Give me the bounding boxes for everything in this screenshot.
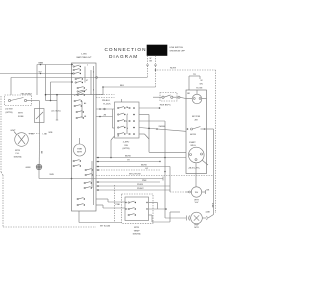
svg-text:2: 2: [93, 72, 94, 74]
svg-text:6: 6: [127, 128, 128, 130]
wire PR-BLK: [96, 95, 115, 102]
svg-text:YL-BLK: YL-BLK: [103, 104, 111, 106]
wire YL-BLK: [96, 98, 115, 106]
svg-text:WTR: WTR: [134, 227, 139, 229]
svg-text:START: START: [189, 141, 196, 144]
wires speed switch right: [139, 107, 186, 218]
wire lid switch to fuse: [27, 100, 58, 109]
svg-text:YEL/W-BLK: YEL/W-BLK: [21, 93, 33, 95]
line switch lead N: [150, 56, 157, 88]
wire GY: [0, 71, 72, 74]
svg-text:PUR3: PUR3: [137, 184, 144, 186]
svg-text:GN: GN: [200, 84, 204, 86]
svg-text:PNK: PNK: [142, 180, 147, 182]
note dashed leader: [157, 68, 216, 213]
svg-text:BU/W: BU/W: [125, 155, 132, 157]
svg-text:MOTOR: MOTOR: [192, 116, 201, 118]
svg-text:NOTE: NOTE: [170, 68, 177, 70]
wire W/B feed: [39, 170, 163, 181]
svg-text:WTR: WTR: [194, 199, 199, 201]
temp switch exits: [149, 203, 181, 223]
timer cam contacts upper: [71, 64, 94, 205]
bus wire BU/W short: [96, 164, 170, 167]
svg-text:WAT PRES S/T: WAT PRES S/T: [76, 56, 92, 59]
svg-text:5: 5: [127, 114, 128, 116]
svg-text:SW(TB): SW(TB): [14, 156, 22, 158]
wire BRN: [37, 62, 72, 100]
svg-text:4-BK: 4-BK: [211, 203, 213, 208]
wire BLK: [46, 85, 156, 134]
svg-text:W: W: [201, 80, 203, 82]
junction dots: [102, 69, 166, 172]
lid switch S5 header: [153, 93, 186, 107]
svg-text:GY: GY: [145, 168, 149, 170]
svg-text:+BLK/C-TR+: +BLK/C-TR+: [188, 168, 201, 170]
line switch lead L1: [146, 56, 148, 78]
bus wire 2: [96, 160, 161, 163]
bus wire BU/W long: [96, 155, 186, 158]
svg-text:TMR: TMR: [77, 149, 82, 151]
svg-text:2-SPD: 2-SPD: [123, 142, 130, 144]
svg-text:2: 2: [126, 121, 127, 123]
pump motor M3: [191, 129, 214, 229]
water valve V1: [185, 180, 210, 204]
svg-text:2M: 2M: [104, 115, 107, 117]
svg-text:PNK: PNK: [116, 204, 121, 206]
svg-text:WDG: WDG: [191, 145, 196, 147]
bus wire PUR3: [96, 184, 170, 187]
svg-text:2M-BK: 2M-BK: [159, 126, 166, 128]
svg-text:FUSE: FUSE: [18, 116, 24, 118]
svg-text:PMP: PMP: [194, 224, 199, 226]
svg-text:TEMP: TEMP: [133, 230, 140, 232]
svg-text:W/B: W/B: [49, 132, 53, 134]
svg-text:HDR BR/YL: HDR BR/YL: [160, 104, 172, 106]
title CONNECTION DIAGRAM: [105, 47, 147, 59]
svg-text:(W/TB): (W/TB): [6, 112, 13, 114]
timer lower exits: [96, 199, 125, 208]
timer box T1: [72, 54, 97, 212]
fuse F1: [18, 109, 44, 134]
lid switch S2: [5, 93, 33, 114]
svg-text:SHOWN IN OFF: SHOWN IN OFF: [170, 50, 186, 52]
svg-text:LID SW: LID SW: [5, 109, 13, 111]
svg-text:CONNECTION: CONNECTION: [105, 47, 147, 52]
line switch S1 (solid black): [147, 45, 186, 56]
svg-text:4M 2M: 4M 2M: [190, 134, 196, 136]
svg-text:WTR: WTR: [18, 113, 23, 115]
svg-text:PUR/C: PUR/C: [137, 188, 144, 190]
svg-text:WT B-U/A: WT B-U/A: [100, 224, 110, 227]
svg-text:W/B: W/B: [50, 174, 55, 176]
bus wire PNK: [96, 180, 160, 183]
svg-text:YL/GN: YL/GN: [196, 88, 203, 90]
svg-text:SW(TB): SW(TB): [133, 234, 141, 236]
motor box M2: [186, 90, 214, 180]
speed switch S4: [115, 99, 140, 150]
svg-text:(LT, BLK): (LT, BLK): [52, 111, 61, 113]
svg-text:WTR: WTR: [15, 150, 20, 152]
timer motor M1: [74, 138, 86, 156]
wire bracket to motor top: [189, 74, 203, 90]
ground G1: [26, 134, 42, 170]
svg-text:MTR: MTR: [77, 152, 82, 154]
timer cam contacts lower: [73, 160, 93, 206]
svg-text:W: W: [150, 58, 152, 60]
svg-text:DIAGRAM: DIAGRAM: [109, 54, 138, 59]
bus wire GY dashed: [96, 168, 160, 171]
svg-text:(W/TB): (W/TB): [123, 148, 130, 150]
svg-text:A4: A4: [84, 102, 86, 105]
temp switch S6: [116, 194, 154, 236]
svg-text:MTR: MTR: [194, 227, 199, 229]
bus wire PUR/C to valve: [96, 167, 185, 193]
wire WT3-YEL/W dashed: [96, 175, 214, 177]
svg-text:GRN: GRN: [26, 167, 31, 169]
wire speed sw bottom exit: [111, 136, 115, 158]
svg-text:4-BK: 4-BK: [206, 212, 211, 214]
svg-text:BLK: BLK: [120, 85, 125, 87]
water level switch S3: [10, 130, 47, 159]
svg-text:2M: 2M: [194, 119, 197, 121]
svg-text:I, BK: I, BK: [43, 133, 48, 135]
aux timer wire down: [79, 211, 122, 227]
svg-text:BU/W: BU/W: [141, 164, 148, 166]
capacitor C1: [165, 216, 191, 221]
svg-text:TR: TR: [193, 74, 196, 76]
wire L1 to timer: [11, 77, 148, 95]
console enclosure dashed: [1, 96, 115, 227]
svg-text:GN/T: GN/T: [10, 130, 16, 132]
svg-text:WT3-YEL/W: WT3-YEL/W: [129, 174, 141, 176]
svg-text:3: 3: [93, 90, 94, 92]
wire stub: [51, 82, 72, 101]
svg-text:LINE SWITCH: LINE SWITCH: [170, 47, 184, 49]
wire to speed switch: [96, 108, 115, 128]
svg-text:1: 1: [87, 65, 88, 67]
svg-text:PR-BLK: PR-BLK: [102, 100, 110, 102]
svg-text:1-WD: 1-WD: [81, 54, 87, 56]
